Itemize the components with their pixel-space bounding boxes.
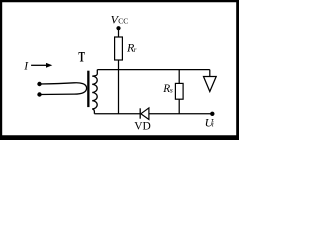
wire: Rs bottom to bottom wire	[178, 99, 180, 114]
output terminal dot	[210, 112, 214, 116]
wire: top-right corner down to ground	[209, 70, 211, 77]
wire: Vcc dot to resistor Rf	[118, 28, 120, 37]
resistor Rs body	[175, 83, 183, 99]
primary hairpin loop wire	[40, 83, 87, 95]
bottom wire left segment	[94, 113, 140, 115]
svg-text:i: i	[212, 120, 214, 129]
wire: top wire to Rs	[178, 70, 180, 84]
primary terminal dot lower	[37, 92, 41, 96]
primary terminal dot upper	[37, 82, 41, 86]
svg-text:CC: CC	[118, 17, 128, 26]
resistor Rf body	[115, 37, 123, 60]
node dot under Vcc	[116, 26, 120, 30]
svg-text:r: r	[134, 47, 137, 54]
border frame	[0, 0, 239, 140]
transformer core	[87, 71, 89, 107]
svg-text:s: s	[170, 85, 173, 94]
svg-text:T: T	[78, 49, 85, 65]
wire: Rf bottom down across top wire to bottom wire	[118, 60, 120, 114]
secondary winding (4 bumps)	[92, 70, 97, 114]
top wire	[97, 69, 210, 71]
diode VD	[140, 108, 149, 120]
current direction arrow	[31, 63, 52, 68]
svg-text:VD: VD	[134, 121, 151, 133]
ground (open triangle)	[204, 77, 217, 92]
bottom wire right segment	[149, 113, 212, 115]
